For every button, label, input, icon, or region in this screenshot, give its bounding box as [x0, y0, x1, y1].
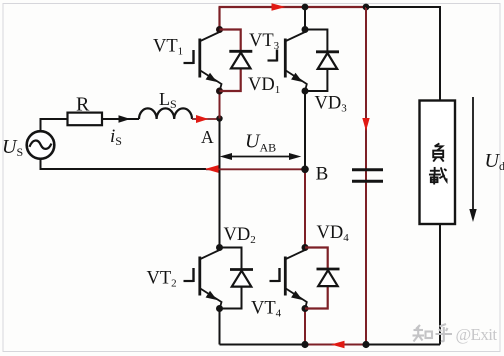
- node VT3 emitter: [302, 88, 309, 95]
- wire top rail to load: [366, 7, 440, 101]
- svg-text:VT1: VT1: [153, 37, 183, 58]
- wire top-left rail corner down to VT1 collector: [218, 7, 220, 30]
- IGBT VT3: [268, 32, 307, 90]
- red current arrow on top rail: [272, 3, 286, 11]
- svg-text:VD4: VD4: [317, 223, 350, 244]
- wire inductor to node A (red arrow): [192, 118, 218, 120]
- wire source bottom return: [41, 159, 207, 169]
- load text 载: [429, 167, 447, 185]
- resistor R: [68, 113, 103, 126]
- diode VD2 symbol: [230, 270, 253, 287]
- node VT1 collector: [216, 26, 223, 33]
- svg-text:@Exit: @Exit: [456, 325, 498, 344]
- inductor LS: [139, 108, 192, 119]
- IGBT VT2: [184, 250, 222, 308]
- wire return red segment B to arrow: [206, 168, 305, 170]
- bottom rail wire red segment: [305, 344, 366, 346]
- svg-text:VD2: VD2: [224, 225, 256, 246]
- diode VD1 symbol: [229, 51, 252, 68]
- node A: [216, 115, 222, 121]
- wire capacitor branch vertical (dark red): [365, 7, 367, 345]
- node VT1 emitter: [216, 88, 223, 95]
- node VT2 emitter: [216, 305, 223, 312]
- wire load bottom to bottom rail: [439, 225, 441, 345]
- capacitor C plate bottom: [352, 180, 383, 183]
- wire VT3 emitter down to node B: [304, 91, 306, 169]
- wire top rail (dark red): [219, 6, 367, 8]
- current arrow iS: [119, 115, 131, 123]
- IGBT VT4: [270, 250, 307, 308]
- IGBT VT1: [184, 32, 222, 90]
- wire VT1 emitter to node A (dark red): [219, 91, 221, 119]
- wire node B down to VT4 (dark red): [304, 169, 306, 247]
- wire VT4 emitter to bottom rail (dark red): [304, 309, 306, 345]
- diode VD4 symbol: [317, 269, 340, 286]
- load box (negative/load): [420, 101, 456, 225]
- svg-text:UAB: UAB: [245, 131, 276, 155]
- svg-text:A: A: [201, 127, 214, 147]
- svg-text:VT2: VT2: [147, 269, 177, 290]
- node bottom rail / VT4: [301, 341, 308, 348]
- bottom rail wire left (black): [220, 344, 306, 346]
- node VT2 collector: [216, 244, 223, 251]
- svg-text:VT4: VT4: [251, 299, 282, 320]
- double arrow UAB: [223, 156, 298, 158]
- AC source US circle: [27, 131, 55, 159]
- node VT3 collector: [302, 26, 309, 33]
- arrow Ud: [472, 97, 474, 212]
- svg-text:VD1: VD1: [248, 75, 280, 96]
- wire VT2 emitter to bottom rail: [219, 309, 221, 345]
- node B: [301, 166, 309, 174]
- wire R to inductor: [102, 118, 139, 120]
- svg-text:R: R: [76, 94, 90, 116]
- svg-text:VT3: VT3: [249, 31, 280, 52]
- red current arrow on bottom rail: [331, 341, 345, 348]
- node top rail / capacitor branch: [363, 4, 370, 11]
- svg-text:US: US: [2, 136, 23, 159]
- node bottom rail / capacitor: [362, 341, 369, 348]
- diode VD1 loop wire (dark red): [220, 30, 241, 92]
- svg-text:iS: iS: [110, 126, 122, 148]
- diode VD2 loop wire: [220, 248, 242, 309]
- bottom rail wire right (black): [366, 344, 440, 346]
- watermark 知乎 @Exit: [413, 324, 453, 342]
- svg-text:Ud: Ud: [485, 150, 504, 173]
- AC source sine symbol: [30, 141, 52, 149]
- svg-text:B: B: [316, 164, 329, 185]
- wire source top to R: [41, 119, 68, 132]
- capacitor C plate top: [352, 168, 383, 171]
- load text 负: [433, 143, 443, 161]
- diode VD3 loop wire: [305, 30, 327, 92]
- node VT4 emitter: [302, 305, 309, 312]
- red current arrow down on capacitor branch: [362, 118, 369, 131]
- svg-text:LS: LS: [159, 89, 177, 111]
- node VT4 collector: [302, 244, 309, 251]
- wire node A down to VT2: [219, 119, 221, 248]
- wire rail to VT3 collector: [304, 7, 306, 30]
- red current arrow toward source: [205, 165, 219, 173]
- svg-text:VD3: VD3: [315, 94, 348, 115]
- node top rail / VT3: [302, 4, 309, 11]
- diode VD3 symbol: [316, 52, 339, 69]
- diode VD4 loop wire (dark red): [305, 248, 328, 309]
